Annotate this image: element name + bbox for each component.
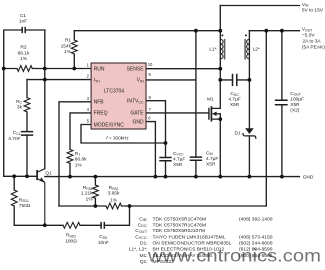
svg-text:COUT:: COUT: xyxy=(135,228,147,234)
parts list text xyxy=(129,216,273,264)
resistor RFB2 3.65k xyxy=(106,203,122,209)
svg-text:1%: 1% xyxy=(20,56,28,62)
svg-text:RFB1: RFB1 xyxy=(83,185,93,191)
svg-text:R1: R1 xyxy=(65,37,71,43)
svg-text:1%: 1% xyxy=(86,196,94,202)
label RSD2 xyxy=(65,233,77,245)
resistor RFB1 1.21k xyxy=(93,185,99,198)
capacitor CVCC plates xyxy=(159,158,171,161)
svg-text:CIN: CIN xyxy=(206,150,213,156)
svg-text:1.21k: 1.21k xyxy=(81,191,93,197)
svg-text:(408) 573-4150: (408) 573-4150 xyxy=(239,235,273,241)
wire R1 leads xyxy=(73,31,75,69)
wire NFB line pin3 xyxy=(59,102,91,206)
transistor Q1 xyxy=(37,169,45,226)
wire RFB1 leads xyxy=(94,177,96,206)
svg-text:4.7µF: 4.7µF xyxy=(228,97,240,103)
svg-text:L1*, L2*:: L1*, L2*: xyxy=(129,247,148,253)
wire L2 D1 vertical xyxy=(248,31,250,177)
wire GATE line pin7 xyxy=(146,112,209,114)
wire VOUT rail xyxy=(249,30,299,32)
svg-text:(408) 392-1400: (408) 392-1400 xyxy=(239,216,273,222)
svg-text:−5.0V: −5.0V xyxy=(302,32,315,38)
svg-text:GND: GND xyxy=(303,174,314,180)
svg-text:100Ω: 100Ω xyxy=(65,238,77,244)
svg-text:R2: R2 xyxy=(20,45,26,51)
inductor L2 phasing dot xyxy=(245,34,247,36)
capacitor CIN plates xyxy=(190,157,202,160)
svg-text:TDK C5750X5R0J107M: TDK C5750X5R0J107M xyxy=(153,228,205,234)
inductor L1 core xyxy=(224,39,226,60)
wire CDC leads xyxy=(220,79,249,81)
svg-text:10: 10 xyxy=(148,62,153,67)
label R2 xyxy=(18,45,30,63)
resistor RSD1 750 xyxy=(11,190,17,206)
label RFB2 xyxy=(108,185,120,203)
svg-text:3.65k: 3.65k xyxy=(108,191,120,197)
wire VIN horizontal rail to R1 xyxy=(74,30,220,32)
svg-text:GATE: GATE xyxy=(130,111,144,117)
svg-text:VIN: VIN xyxy=(302,2,309,8)
svg-text:(X2): (X2) xyxy=(290,107,299,113)
wire GND rail xyxy=(45,176,300,178)
wire VIN pin9 xyxy=(146,79,196,81)
svg-text:CVCC: CVCC xyxy=(173,151,184,157)
label CDC xyxy=(228,91,240,108)
pin numbers xyxy=(87,62,153,124)
svg-text:www.cntronics.com: www.cntronics.com xyxy=(147,246,321,266)
label C1 xyxy=(19,13,27,24)
svg-text:Q1:: Q1: xyxy=(140,259,148,265)
svg-text:D1:: D1: xyxy=(140,240,148,246)
wire left rail to Q1 base xyxy=(4,69,37,177)
svg-text:TAIYO YUDEN LMK316BJ475ML: TAIYO YUDEN LMK316BJ475ML xyxy=(153,235,226,241)
svg-text:5V to 15V: 5V to 15V xyxy=(302,7,324,13)
capacitor C1 plates xyxy=(22,27,25,33)
op-amp U1 LTC3704 body xyxy=(91,63,146,129)
svg-text:FREQ: FREQ xyxy=(94,111,108,117)
svg-text:f = 300kHz: f = 300kHz xyxy=(106,136,129,141)
capacitor COUT plates xyxy=(275,100,288,105)
label CIN xyxy=(206,150,218,167)
svg-text:(5A PEAK): (5A PEAK) xyxy=(302,45,325,51)
svg-text:CDC:: CDC: xyxy=(138,222,148,228)
svg-text:80.6k: 80.6k xyxy=(75,157,87,163)
node VOUT xyxy=(302,27,325,51)
wire MODE/SYNC loop pin5 xyxy=(81,125,166,144)
svg-text:NFB: NFB xyxy=(94,100,105,106)
svg-text:1%: 1% xyxy=(75,162,83,168)
svg-text:CIN:: CIN: xyxy=(139,216,147,222)
wire Rc CC1 chain xyxy=(26,80,28,177)
svg-text:C1: C1 xyxy=(20,13,26,19)
node VIN xyxy=(302,2,324,14)
label RC xyxy=(16,99,23,111)
inductor L2 winding xyxy=(247,39,250,59)
wire ITH line pin2 xyxy=(27,79,91,81)
svg-text:TDK C5750X7R1C476M: TDK C5750X7R1C476M xyxy=(153,222,207,228)
svg-text:MODE/SYNC: MODE/SYNC xyxy=(94,122,125,128)
capacitor CDC plates xyxy=(233,74,237,86)
svg-text:CDC: CDC xyxy=(230,91,239,97)
svg-text:1%: 1% xyxy=(110,197,118,203)
capacitor CSS plates xyxy=(101,222,104,229)
svg-text:M1:: M1: xyxy=(139,253,147,259)
svg-text:100µF: 100µF xyxy=(290,96,304,102)
wire COUT branch xyxy=(281,31,283,177)
wire CIN branch xyxy=(195,31,197,177)
svg-text:L1*: L1* xyxy=(209,46,216,52)
svg-text:RSD2: RSD2 xyxy=(66,233,76,239)
wire VIN vertical to L1 and M1 drain xyxy=(219,6,221,109)
svg-text:LTC3704: LTC3704 xyxy=(104,89,124,95)
svg-text:CVCC:: CVCC: xyxy=(135,235,147,241)
svg-text:Q1: Q1 xyxy=(45,171,52,177)
svg-text:1nF: 1nF xyxy=(19,19,27,25)
label CSS xyxy=(98,234,109,246)
label CVCC xyxy=(173,151,185,168)
svg-text:M1: M1 xyxy=(207,97,214,103)
wire SENSE line pin10 xyxy=(146,68,220,70)
label RT xyxy=(75,151,87,168)
wire feedback vertical from VOUT xyxy=(265,31,267,206)
svg-text:CC1: CC1 xyxy=(13,130,21,136)
label RFB1 xyxy=(81,185,93,202)
inductor L1 winding xyxy=(220,39,223,59)
wire FREQ line pin4 to RT xyxy=(70,113,91,177)
svg-text:750Ω: 750Ω xyxy=(19,203,31,209)
wire INTVCC pin8 to CVCC xyxy=(146,101,166,177)
wire VIN top rail xyxy=(220,5,299,7)
svg-text:D1: D1 xyxy=(235,131,241,137)
svg-text:RT: RT xyxy=(75,151,81,157)
svg-text:X5R: X5R xyxy=(173,162,183,168)
svg-text:4.7nF: 4.7nF xyxy=(8,136,20,142)
wire RUN line pin1 xyxy=(4,68,91,70)
capacitor CC1 plates xyxy=(21,132,33,136)
svg-text:SENSE: SENSE xyxy=(127,66,145,72)
svg-text:L2*: L2* xyxy=(253,46,260,52)
svg-text:X5R: X5R xyxy=(230,102,240,108)
svg-text:TDK C5750X5R1C476M: TDK C5750X5R1C476M xyxy=(153,216,207,222)
transistor M1 xyxy=(209,106,220,121)
svg-text:2A to 3A: 2A to 3A xyxy=(303,39,322,45)
wire soft-start bottom line xyxy=(14,176,129,225)
label R1 xyxy=(61,37,72,55)
resistor R2 68.1k xyxy=(17,66,32,72)
label CC1 xyxy=(8,130,20,142)
diode D1 schottky xyxy=(245,128,254,134)
resistor RC 3k xyxy=(24,98,30,112)
svg-text:VOUT: VOUT xyxy=(302,27,312,33)
svg-text:RFB2: RFB2 xyxy=(109,185,119,191)
svg-text:4.7µF: 4.7µF xyxy=(173,157,185,163)
inductor L2 core xyxy=(244,39,246,60)
wire GND pin6 xyxy=(146,122,155,177)
label COUT xyxy=(290,91,304,114)
svg-text:GND: GND xyxy=(132,119,144,125)
svg-text:X5R: X5R xyxy=(290,102,300,108)
svg-text:CSS: CSS xyxy=(99,234,108,240)
svg-text:4.7µF: 4.7µF xyxy=(206,156,218,162)
svg-text:X5R: X5R xyxy=(206,162,216,168)
svg-text:1%: 1% xyxy=(64,49,72,55)
svg-text:154k: 154k xyxy=(61,43,72,49)
svg-text:RSD1: RSD1 xyxy=(19,197,29,203)
wire C1 top loop xyxy=(4,30,45,169)
svg-text:COUT: COUT xyxy=(290,91,301,97)
svg-text:68.1k: 68.1k xyxy=(18,50,30,56)
svg-text:3k: 3k xyxy=(17,105,23,111)
svg-text:RUN: RUN xyxy=(94,66,105,72)
wire NFB feedback line xyxy=(59,205,266,207)
svg-text:10nF: 10nF xyxy=(98,240,109,246)
wire M1 source to ground xyxy=(219,114,221,177)
svg-text:RC: RC xyxy=(16,99,22,105)
label RSD1 xyxy=(19,197,31,209)
resistor RT 80.6k xyxy=(67,149,73,163)
inductor L1 phasing dot xyxy=(221,34,223,36)
resistor R1 154k xyxy=(71,40,77,54)
IC pin names xyxy=(94,66,145,128)
resistor RSD2 100 xyxy=(63,222,80,228)
